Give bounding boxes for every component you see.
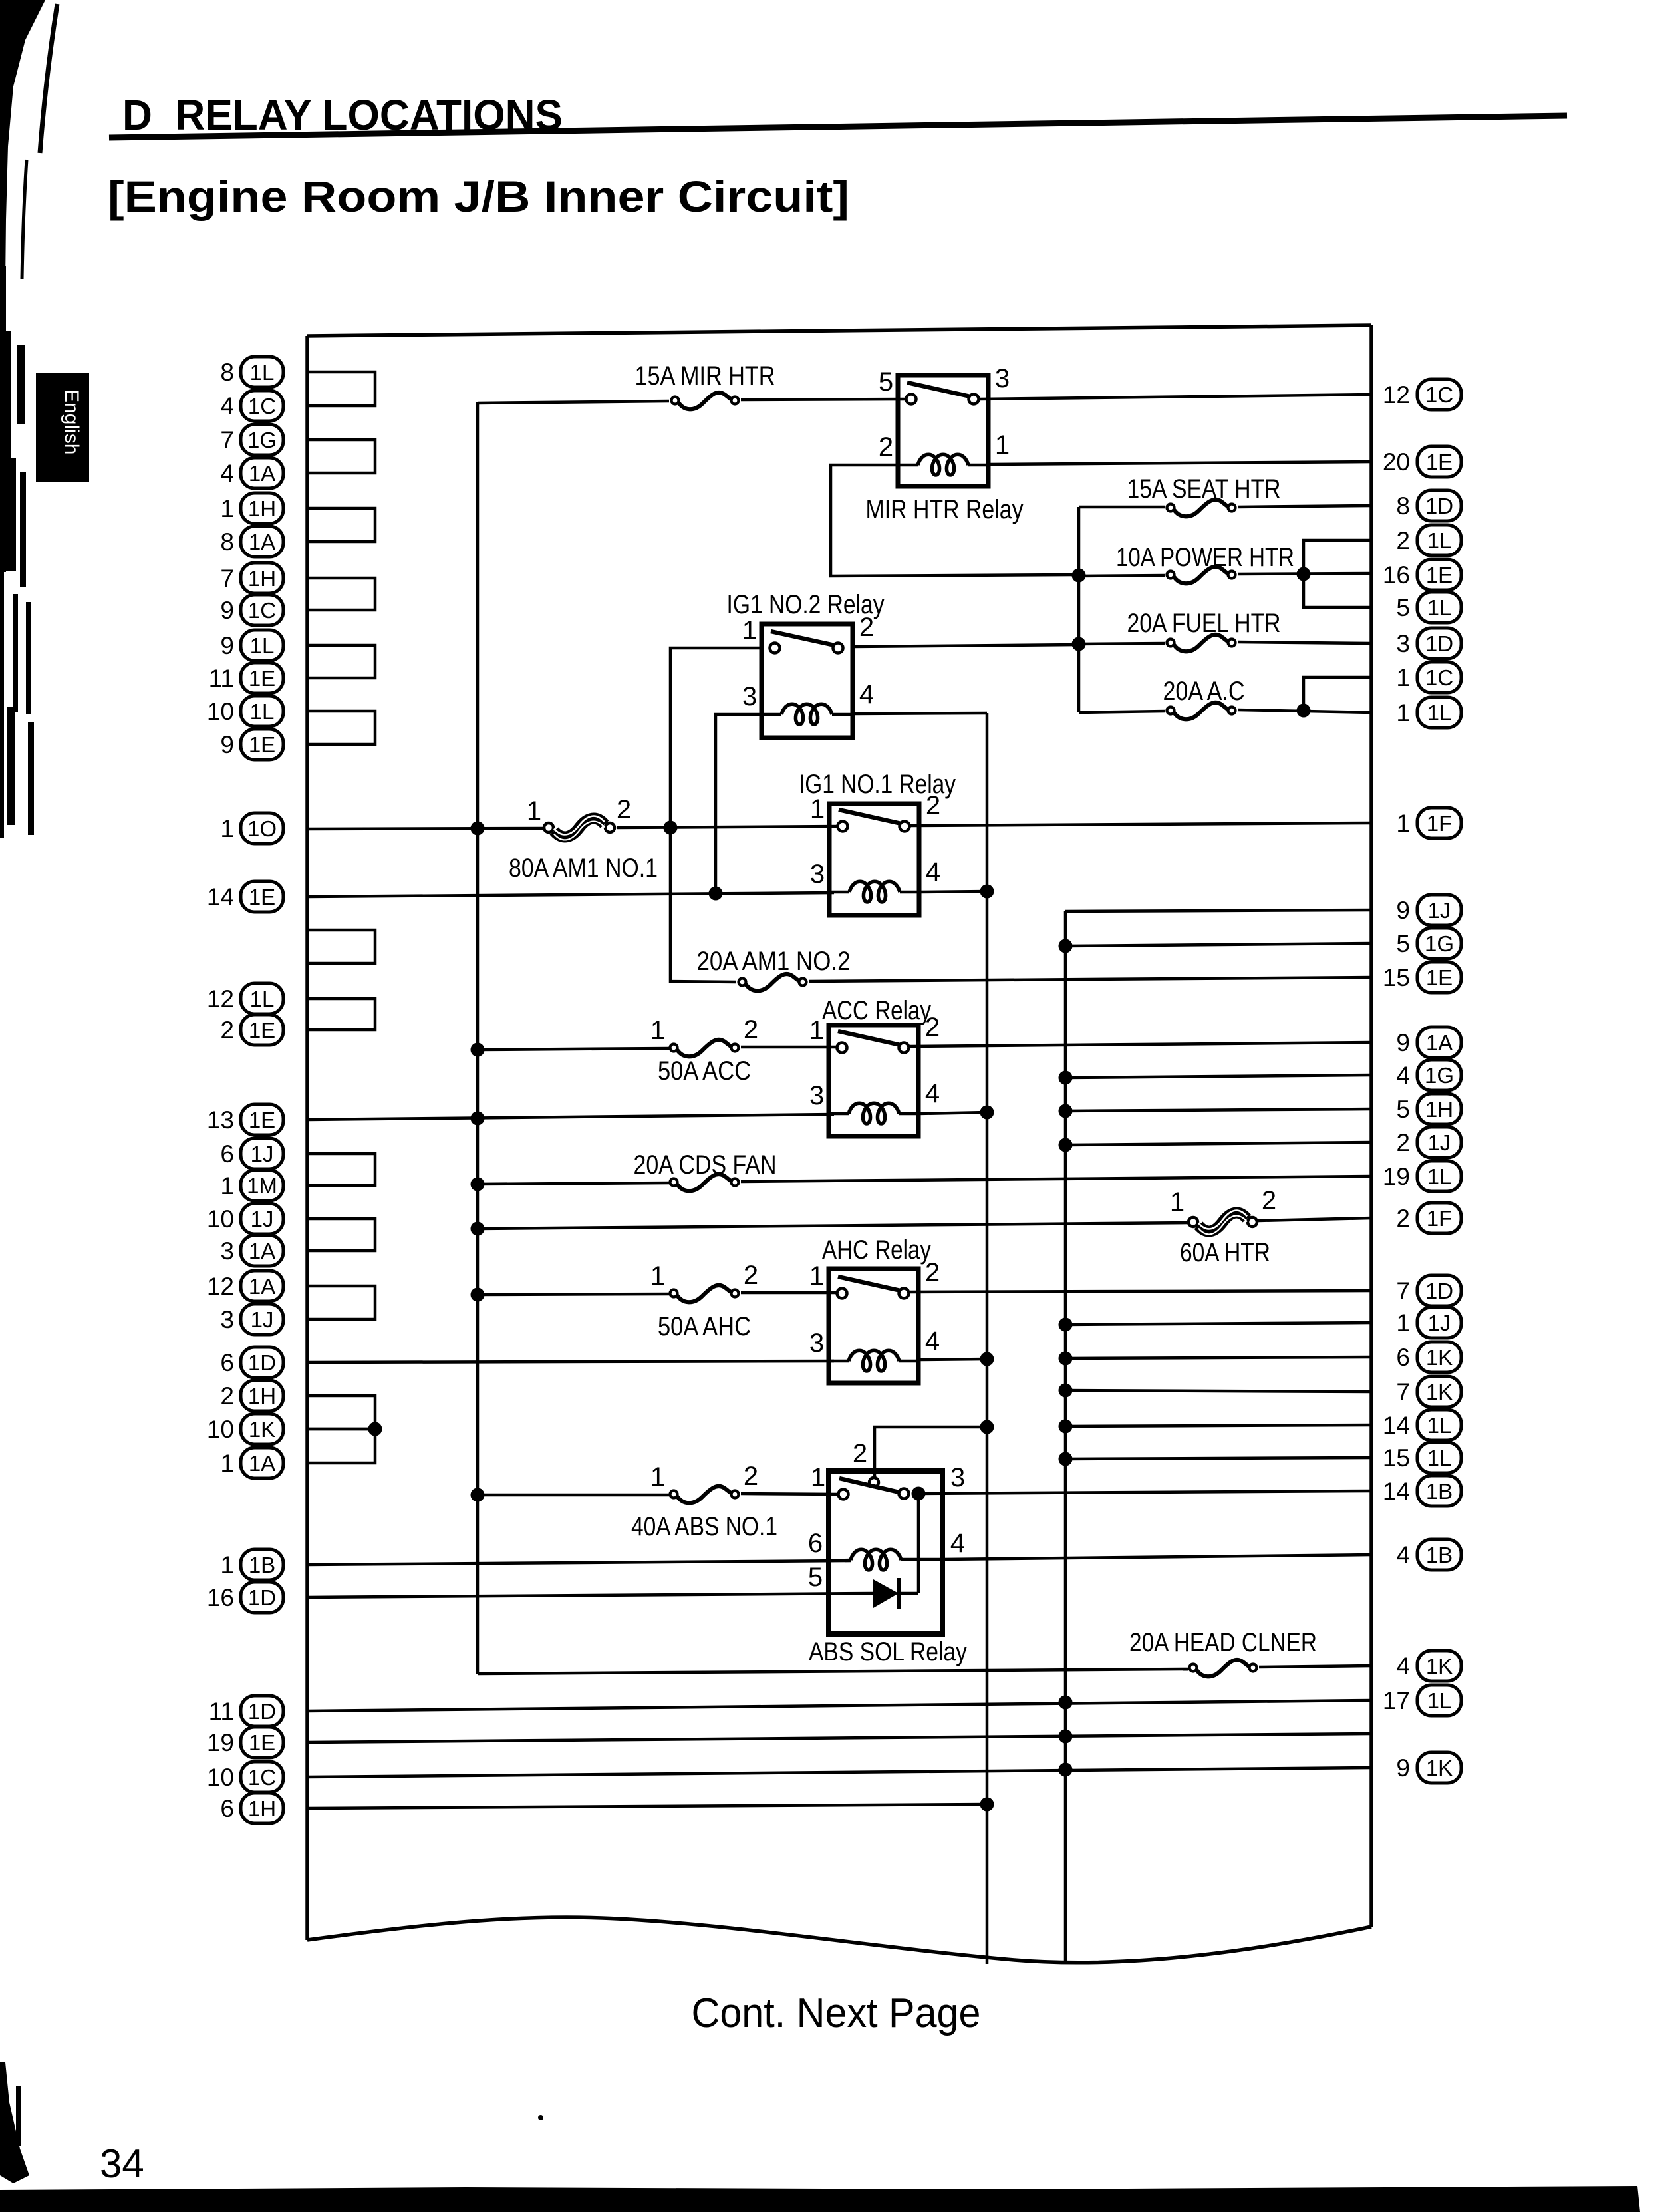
svg-text:1E: 1E: [249, 666, 275, 691]
node 3 (1D) right terminal: [1396, 628, 1461, 659]
svg-text:IG1 NO.1 Relay: IG1 NO.1 Relay: [799, 770, 956, 799]
svg-text:1A: 1A: [249, 461, 275, 486]
wire MIR HTR relay pin 2 drop: [831, 465, 1075, 576]
svg-text:4: 4: [220, 460, 234, 487]
junction 4-1G on right bus: [1059, 1071, 1073, 1085]
wire right bus to 9-1J: [1065, 910, 1371, 911]
wire 60A HTR feed: [478, 1223, 1188, 1229]
relay IG1 NO.1 Relay coil: [829, 881, 919, 902]
node 10 (1C) left terminal: [207, 1762, 283, 1792]
junction at 10-1K housing corner: [368, 1422, 382, 1436]
svg-text:20A A.C: 20A A.C: [1163, 677, 1245, 706]
svg-text:1E: 1E: [1426, 450, 1453, 474]
relay ABS SOL Relay body: [829, 1471, 942, 1634]
svg-text:9: 9: [1396, 897, 1410, 924]
fuse 20A CDS FAN: [670, 1174, 739, 1191]
svg-text:1L: 1L: [1427, 1446, 1452, 1470]
svg-text:3: 3: [220, 1237, 234, 1265]
svg-text:2: 2: [1396, 1205, 1410, 1232]
svg-text:1G: 1G: [1425, 931, 1454, 956]
junction FUEL HTR feed: [1072, 637, 1086, 651]
wire 13-1E to ACC relay pin 3: [307, 1114, 834, 1120]
junction ACC feed on battery bus: [471, 1043, 485, 1057]
svg-text:1: 1: [527, 796, 541, 826]
wire 1-1O to 80A fuse: [307, 828, 544, 829]
wire 10-1C to 9-1K: [307, 1768, 1371, 1777]
fuse 15A MIR HTR: [672, 393, 739, 409]
svg-text:10A POWER HTR: 10A POWER HTR: [1116, 543, 1294, 572]
node 6 (1K) right terminal: [1396, 1342, 1461, 1372]
svg-text:1A: 1A: [1426, 1030, 1453, 1055]
wire right distribution bus vertical: [1064, 911, 1067, 1963]
wire POWER HTR fuse feed: [1079, 575, 1165, 576]
wire A.C fuse feed: [1079, 711, 1165, 712]
node 19 (1L) right terminal: [1383, 1161, 1461, 1191]
wire MIR HTR fuse feed from bus: [478, 401, 669, 403]
svg-text:1: 1: [809, 1261, 824, 1291]
relay ABS SOL Relay diode: [873, 1578, 918, 1609]
svg-text:IG1 NO.2 Relay: IG1 NO.2 Relay: [727, 590, 885, 619]
svg-text:20: 20: [1383, 448, 1410, 476]
svg-text:7: 7: [220, 565, 234, 592]
svg-text:12: 12: [207, 1273, 234, 1300]
svg-text:4: 4: [925, 1079, 940, 1108]
svg-text:1E: 1E: [249, 1108, 275, 1132]
svg-text:1: 1: [220, 495, 234, 522]
wire SEAT HTR fuse to 8-1D: [1238, 506, 1371, 507]
svg-text:1L: 1L: [1427, 701, 1452, 725]
svg-text:5: 5: [1396, 594, 1410, 621]
node 4 (1K) right terminal: [1396, 1651, 1461, 1681]
svg-text:12: 12: [1383, 381, 1410, 408]
svg-text:2: 2: [744, 1462, 758, 1491]
node 2 (1F) right terminal: [1396, 1203, 1461, 1233]
junction 5-1G on right bus: [1059, 939, 1073, 953]
svg-text:1: 1: [650, 1016, 665, 1045]
node 2 (1H) left terminal: [220, 1380, 283, 1411]
relay IG1 NO.1 Relay body: [829, 804, 919, 915]
relay IG1 NO.2 Relay coil: [762, 704, 853, 724]
wire 6-1D to AHC relay pin 3: [307, 1361, 834, 1362]
svg-text:1H: 1H: [248, 1384, 276, 1408]
svg-text:2: 2: [879, 432, 893, 462]
junction 5-1H on right bus: [1059, 1104, 1073, 1118]
svg-text:1C: 1C: [1425, 383, 1453, 407]
svg-text:ACC Relay: ACC Relay: [822, 996, 931, 1025]
svg-text:7: 7: [1396, 1277, 1410, 1305]
connector housing left group 6: [307, 711, 375, 744]
svg-text:16: 16: [1383, 561, 1410, 589]
svg-text:11: 11: [209, 665, 234, 692]
svg-text:1K: 1K: [249, 1417, 275, 1442]
junction AHC feed on battery bus: [471, 1288, 485, 1302]
relay AHC Relay switch contacts: [837, 1277, 909, 1299]
svg-text:9: 9: [1396, 1029, 1410, 1056]
svg-text:1B: 1B: [249, 1553, 275, 1577]
svg-text:19: 19: [1383, 1163, 1410, 1190]
node 4 (1A) left terminal: [220, 458, 283, 488]
svg-text:10: 10: [207, 698, 234, 725]
junction 14-1L on right bus: [1059, 1420, 1073, 1434]
svg-text:1K: 1K: [1426, 1345, 1453, 1370]
node 15 (1E) right terminal: [1383, 962, 1461, 993]
svg-text:1: 1: [811, 1463, 825, 1492]
junction CDS FAN feed on battery bus: [471, 1178, 485, 1191]
svg-text:1L: 1L: [1427, 528, 1452, 553]
fuse 40A ABS NO.1: [670, 1486, 739, 1503]
svg-text:1O: 1O: [247, 816, 277, 841]
relay ACC Relay body: [829, 1025, 918, 1136]
svg-text:1E: 1E: [249, 732, 275, 757]
svg-text:4: 4: [220, 393, 234, 420]
wire 20A CDS FAN feed: [478, 1183, 669, 1184]
title underline rule: [109, 116, 1567, 138]
junction 15-1L on right bus: [1059, 1452, 1073, 1466]
node 14 (1B) right terminal: [1383, 1476, 1461, 1506]
svg-text:ABS SOL Relay: ABS SOL Relay: [809, 1637, 967, 1666]
svg-text:3: 3: [809, 1081, 824, 1110]
svg-text:15: 15: [1383, 964, 1410, 991]
wire 1-1B to ABS SOL pin 6: [307, 1561, 851, 1565]
junction ABS SOL pin 2 on center bus: [980, 1420, 994, 1434]
node 8 (1L) left terminal: [220, 357, 283, 387]
fuse 20A HEAD CLNER: [1190, 1660, 1257, 1676]
svg-text:1: 1: [650, 1462, 665, 1492]
svg-text:1L: 1L: [1427, 595, 1452, 620]
fuse 20A AM1 NO.2: [739, 974, 807, 991]
connector housing 12-1A/3-1J: [307, 1286, 375, 1319]
svg-text:1C: 1C: [248, 1765, 276, 1790]
svg-text:[Engine Room J/B Inner Circuit: [Engine Room J/B Inner Circuit]: [108, 172, 849, 221]
wire A.C fuse to 1-1L: [1238, 710, 1371, 712]
svg-text:1: 1: [650, 1261, 665, 1291]
node 4 (1C) left terminal: [220, 391, 283, 421]
svg-text:14: 14: [207, 883, 234, 911]
wire right bus to 15-1L: [1065, 1458, 1371, 1459]
fuse 20A FUEL HTR: [1167, 635, 1236, 651]
connector housing 10-1K/1-1A: [307, 1429, 375, 1463]
svg-text:1: 1: [220, 1172, 234, 1199]
node 16 (1E) right terminal: [1383, 559, 1461, 590]
fuse 80A AM1 NO.1: [544, 816, 615, 840]
junction block outline: [307, 325, 1371, 1963]
node 9 (1K) right terminal: [1396, 1752, 1461, 1783]
wire AHC relay pin 4 to center bus: [918, 1359, 987, 1360]
svg-text:15A MIR HTR: 15A MIR HTR: [635, 361, 775, 391]
node 12 (1C) right terminal: [1383, 379, 1461, 410]
fuse 10A POWER HTR: [1167, 567, 1236, 583]
fuse 50A AHC: [670, 1285, 739, 1302]
node 20 (1E) right terminal: [1383, 446, 1461, 477]
svg-text:1L: 1L: [250, 699, 275, 724]
svg-text:6: 6: [220, 1140, 234, 1168]
node 7 (1K) right terminal: [1396, 1376, 1461, 1407]
svg-text:1D: 1D: [248, 1585, 276, 1610]
svg-text:1B: 1B: [1426, 1543, 1453, 1567]
wire right bus to 7-1K: [1065, 1390, 1371, 1392]
junction 7-1K on right bus: [1059, 1384, 1073, 1398]
svg-text:9: 9: [220, 597, 234, 624]
scan artifact left edge streaks: [0, 266, 34, 838]
svg-text:3: 3: [809, 1329, 824, 1358]
wire IG1 NO.2 pin 2 to FUEL HTR bus: [853, 645, 1079, 647]
node 10 (1J) left terminal: [207, 1203, 283, 1234]
node 19 (1E) left terminal: [207, 1727, 283, 1758]
svg-text:9: 9: [220, 632, 234, 659]
svg-text:13: 13: [207, 1106, 234, 1134]
connector housing left group 5: [307, 645, 375, 678]
svg-text:4: 4: [1396, 1541, 1410, 1569]
svg-text:3: 3: [810, 860, 825, 889]
wire ACC fuse to ACC relay pin 1: [741, 1046, 839, 1049]
node 11 (1D) left terminal: [209, 1696, 283, 1726]
node 16 (1D) left terminal: [207, 1582, 283, 1613]
svg-text:3: 3: [742, 682, 757, 711]
svg-text:1: 1: [1396, 1309, 1410, 1337]
relay ABS SOL Relay coil: [829, 1549, 942, 1570]
node 1 (1A) left terminal: [220, 1448, 283, 1478]
relay ACC Relay coil: [829, 1103, 918, 1124]
scan artifact small speck: [538, 2115, 543, 2120]
junction ABS feed on battery bus: [471, 1488, 485, 1502]
node 9 (1J) right terminal: [1396, 895, 1461, 925]
svg-text:1D: 1D: [1425, 494, 1453, 518]
node 7 (1G) left terminal: [220, 424, 283, 455]
node 12 (1L) left terminal: [207, 983, 283, 1014]
wire fuse to MIR HTR relay pin 5: [741, 399, 905, 400]
wire right bus to 2-1J: [1065, 1142, 1371, 1145]
svg-text:1F: 1F: [1427, 811, 1453, 836]
junction 6-1H on center bus: [980, 1798, 994, 1812]
svg-text:80A AM1 NO.1: 80A AM1 NO.1: [509, 854, 658, 883]
svg-text:8: 8: [220, 359, 234, 386]
connector housing left group 4: [307, 578, 375, 610]
svg-text:Cont. Next Page: Cont. Next Page: [692, 1990, 981, 2036]
wire battery bus vertical (left feed bus): [476, 402, 480, 1674]
connector housing 6-1J/1-1M: [307, 1154, 375, 1185]
svg-text:1: 1: [1396, 699, 1410, 726]
connector housing left group 2: [307, 440, 375, 473]
svg-text:2: 2: [1396, 527, 1410, 554]
svg-text:1: 1: [742, 616, 757, 645]
svg-text:1C: 1C: [248, 598, 276, 623]
svg-text:4: 4: [950, 1529, 965, 1558]
svg-text:1L: 1L: [250, 633, 275, 658]
node 12 (1A) left terminal: [207, 1271, 283, 1301]
svg-text:1A: 1A: [249, 1274, 275, 1299]
scan artifact bottom bar: [0, 2186, 1640, 2212]
junction 60A HTR feed on battery bus: [471, 1222, 485, 1236]
svg-text:50A AHC: 50A AHC: [658, 1312, 751, 1341]
svg-text:3: 3: [995, 364, 1010, 393]
node 5 (1G) right terminal: [1396, 928, 1461, 959]
node 10 (1K) left terminal: [207, 1414, 283, 1444]
wire ABS SOL pin 3 to 14-1B: [918, 1491, 1371, 1494]
svg-text:14: 14: [1383, 1412, 1410, 1439]
svg-text:40A ABS NO.1: 40A ABS NO.1: [631, 1512, 777, 1541]
svg-text:6: 6: [220, 1795, 234, 1822]
junction 1-1J on right bus: [1059, 1318, 1073, 1332]
svg-text:5: 5: [808, 1563, 823, 1592]
wire FUEL HTR fuse to 3-1D: [1238, 642, 1371, 643]
svg-text:8: 8: [1396, 492, 1410, 520]
svg-text:1: 1: [995, 430, 1010, 460]
junction MIR pin2 wire on fuse bus: [1072, 569, 1086, 583]
node 2 (1J) right terminal: [1396, 1127, 1461, 1158]
node 3 (1J) left terminal: [220, 1304, 283, 1335]
node 6 (1H) left terminal: [220, 1793, 283, 1823]
wire 14-1E to IG1 NO.1 pin 3: [307, 893, 834, 897]
svg-text:1L: 1L: [1427, 1413, 1452, 1438]
connector housing left group 3: [307, 508, 375, 542]
svg-text:1L: 1L: [250, 360, 275, 385]
node 6 (1D) left terminal: [220, 1347, 283, 1378]
junction AHC pin 4 on center bus: [980, 1352, 994, 1366]
svg-text:1K: 1K: [1426, 1654, 1453, 1678]
wire right bus to 6-1K: [1065, 1357, 1371, 1358]
svg-text:1: 1: [220, 1551, 234, 1579]
wire ABS fuse to ABS SOL relay pin 1: [741, 1494, 839, 1494]
svg-text:2: 2: [617, 795, 631, 824]
svg-text:1A: 1A: [249, 530, 275, 554]
svg-text:1L: 1L: [250, 987, 275, 1011]
relay IG1 NO.1 Relay switch contacts: [838, 810, 910, 832]
node 1 (1M) left terminal: [220, 1170, 283, 1201]
wire FUEL HTR fuse feed: [1079, 643, 1165, 644]
node 9 (1E) left terminal: [220, 729, 283, 760]
wire ACC relay pin 2 to 9-1A: [910, 1042, 1371, 1046]
node 9 (1A) right terminal: [1396, 1027, 1461, 1058]
svg-text:17: 17: [1383, 1687, 1410, 1714]
fuse 50A ACC: [670, 1040, 739, 1056]
svg-text:4: 4: [1396, 1062, 1410, 1089]
svg-text:8: 8: [220, 528, 234, 555]
junction IG1 NO.2 pin1 bus on 80A row: [664, 821, 678, 835]
svg-text:4: 4: [859, 680, 874, 709]
node 1 (1L) right terminal: [1396, 697, 1461, 728]
svg-text:1J: 1J: [1428, 1130, 1451, 1155]
wire 6-1H to center bus: [307, 1804, 987, 1808]
svg-text:2: 2: [220, 1382, 234, 1410]
svg-text:60A HTR: 60A HTR: [1180, 1238, 1270, 1267]
wire IG1 NO.1 pin 2 to 1-1F: [910, 823, 1371, 826]
junction 10-1C row on right bus: [1059, 1763, 1073, 1777]
junction 80A row on battery bus: [471, 822, 485, 836]
junction POWER HTR output: [1297, 567, 1311, 581]
junction IG1 NO.1 pin 4 on center bus: [980, 885, 994, 899]
svg-text:2: 2: [1396, 1129, 1410, 1156]
wire 50A AHC feed: [478, 1294, 669, 1295]
svg-text:19: 19: [207, 1729, 234, 1756]
junction 6-1K on right bus: [1059, 1352, 1073, 1366]
svg-text:1K: 1K: [1426, 1380, 1453, 1404]
wire IG1 NO.2 pin 3 drop to 14-1E row: [716, 714, 762, 893]
svg-text:4: 4: [926, 858, 940, 887]
node 1 (1J) right terminal: [1396, 1307, 1461, 1338]
wire right bus to 1-1J: [1065, 1323, 1371, 1325]
connector housing 2-1H/10-1K: [307, 1396, 375, 1429]
svg-text:9: 9: [220, 731, 234, 758]
wire 60A HTR fuse to 2-1F: [1258, 1218, 1371, 1221]
node 5 (1L) right terminal: [1396, 592, 1461, 623]
svg-text:1D: 1D: [1425, 631, 1453, 656]
node 17 (1L) right terminal: [1383, 1685, 1461, 1716]
svg-text:1K: 1K: [1426, 1756, 1453, 1780]
svg-text:1B: 1B: [1426, 1479, 1453, 1503]
wire MIR HTR relay pin 3 to 12-1C: [980, 395, 1371, 399]
junction 13-1E row on battery bus: [471, 1112, 485, 1126]
relay ABS SOL Relay switch contacts: [839, 1478, 909, 1500]
svg-text:7: 7: [220, 426, 234, 454]
fuse 15A SEAT HTR: [1167, 500, 1236, 516]
node 4 (1G) right terminal: [1396, 1060, 1461, 1090]
node 7 (1D) right terminal: [1396, 1275, 1461, 1306]
svg-text:3: 3: [950, 1463, 965, 1492]
node 9 (1C) left terminal: [220, 595, 283, 625]
svg-text:1J: 1J: [251, 1307, 274, 1332]
svg-text:1H: 1H: [248, 1796, 276, 1821]
relay AHC Relay body: [829, 1269, 918, 1383]
svg-text:1D: 1D: [248, 1699, 276, 1724]
wire 19-1E row: [307, 1734, 1371, 1742]
svg-text:10: 10: [207, 1416, 234, 1443]
svg-text:20A FUEL HTR: 20A FUEL HTR: [1127, 609, 1281, 638]
scan artifact bottom-left streaks: [0, 2062, 29, 2183]
English language tab: [36, 373, 89, 482]
svg-text:1D: 1D: [248, 1350, 276, 1375]
svg-text:3: 3: [1396, 630, 1410, 657]
svg-text:20A AM1 NO.2: 20A AM1 NO.2: [697, 947, 851, 976]
node 10 (1L) left terminal: [207, 696, 283, 726]
svg-text:5: 5: [879, 367, 893, 396]
svg-text:2: 2: [744, 1015, 758, 1044]
wire right bus to 5-1G: [1065, 943, 1371, 946]
wire ACC relay pin 4 to center bus: [918, 1112, 987, 1114]
wire AHC fuse to AHC relay pin 1: [741, 1291, 839, 1295]
junction A.C output: [1297, 704, 1311, 718]
connector housing middle unlabeled: [307, 930, 375, 963]
wire battery bus to HEAD CLNER fuse: [478, 1669, 1188, 1674]
node 6 (1J) left terminal: [220, 1138, 283, 1169]
svg-text:5: 5: [1396, 1096, 1410, 1123]
wire MIR HTR relay pin 1 to 20-1E: [988, 462, 1371, 464]
svg-text:1M: 1M: [247, 1174, 277, 1198]
svg-text:1: 1: [220, 815, 234, 842]
svg-text:1J: 1J: [1428, 898, 1451, 923]
relay IG1 NO.2 Relay body: [762, 624, 853, 738]
junction 11-1D row on right bus: [1059, 1696, 1073, 1710]
svg-text:6: 6: [1396, 1344, 1410, 1371]
junction ACC pin 4 on center bus: [980, 1106, 994, 1120]
relay MIR HTR Relay coil: [898, 454, 988, 475]
svg-text:10: 10: [207, 1764, 234, 1791]
fuse 60A HTR: [1188, 1211, 1257, 1235]
junction 19-1E row on right bus: [1059, 1730, 1073, 1744]
svg-text:1E: 1E: [249, 1018, 275, 1042]
svg-text:1H: 1H: [1425, 1097, 1453, 1122]
svg-text:2: 2: [220, 1017, 234, 1044]
wire ABS SOL pin 2 riser: [875, 1427, 987, 1478]
svg-text:1C: 1C: [1425, 665, 1453, 690]
wire POWER HTR fuse to 16-1E: [1238, 573, 1371, 574]
svg-text:AHC Relay: AHC Relay: [822, 1235, 931, 1265]
svg-text:1F: 1F: [1427, 1206, 1453, 1231]
fuse 20A A.C: [1167, 703, 1236, 719]
node 3 (1A) left terminal: [220, 1235, 283, 1266]
svg-text:5: 5: [1396, 930, 1410, 957]
svg-text:1D: 1D: [1425, 1279, 1453, 1303]
svg-text:4: 4: [925, 1327, 940, 1356]
